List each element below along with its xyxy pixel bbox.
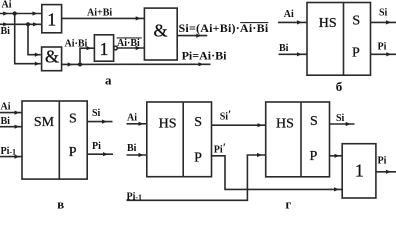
junction dot on Ai wire bbox=[13, 11, 17, 15]
wire P of HS2 to OR bbox=[330, 155, 343, 157]
svg-text:P: P bbox=[194, 151, 202, 166]
divider HS2 bbox=[300, 102, 302, 177]
svg-text:HS: HS bbox=[159, 117, 177, 132]
wire Pi output bbox=[87, 153, 113, 155]
svg-text:Bi: Bi bbox=[127, 143, 137, 154]
divider bbox=[343, 3, 345, 76]
svg-text:Pi=Ai·Bi: Pi=Ai·Bi bbox=[182, 48, 228, 62]
svg-text:Ai·Bi: Ai·Bi bbox=[117, 38, 140, 49]
svg-text:Si=(Ai+Bi)·Ai·Bi: Si=(Ai+Bi)·Ai·Bi bbox=[179, 21, 269, 35]
svg-text:а: а bbox=[105, 72, 112, 87]
svg-text:Ai: Ai bbox=[1, 102, 11, 113]
junction dot on Bi wire bbox=[26, 22, 30, 26]
svg-text:1: 1 bbox=[47, 9, 56, 29]
svg-text:Pi-1: Pi-1 bbox=[1, 146, 17, 157]
wire Ai input bbox=[0, 13, 41, 15]
svg-text:Si: Si bbox=[379, 7, 388, 18]
wire Pi-1 up into HS2 bbox=[127, 155, 266, 200]
svg-text:Bi: Bi bbox=[279, 43, 289, 54]
svg-text:1: 1 bbox=[100, 39, 109, 59]
svg-text:S: S bbox=[69, 112, 77, 127]
wire Si output bbox=[330, 123, 355, 125]
wire Bi input bbox=[0, 23, 41, 25]
svg-text:Ai: Ai bbox=[127, 113, 137, 124]
svg-text:P: P bbox=[69, 145, 77, 160]
svg-text:P: P bbox=[310, 149, 318, 164]
wire Ai branch down to AND gate bbox=[15, 14, 41, 64]
wire Si' to HS2 bbox=[212, 124, 266, 126]
wire OR output Ai+Bi bbox=[62, 17, 145, 19]
wire Pi-1 input bbox=[0, 156, 22, 158]
svg-text:S: S bbox=[352, 13, 360, 28]
svg-text:б: б bbox=[336, 79, 343, 94]
wire Bi branch down to AND gate bbox=[28, 24, 41, 54]
svg-text:Pi: Pi bbox=[92, 141, 101, 152]
divider HS1 bbox=[182, 102, 184, 177]
svg-text:&: & bbox=[153, 21, 167, 41]
svg-text:г: г bbox=[285, 197, 291, 211]
svg-text:Pi: Pi bbox=[378, 156, 387, 167]
svg-text:&: & bbox=[45, 47, 59, 67]
svg-text:S: S bbox=[194, 115, 202, 130]
svg-text:Ai: Ai bbox=[2, 0, 12, 10]
svg-text:в: в bbox=[57, 196, 64, 210]
svg-text:1: 1 bbox=[355, 160, 364, 180]
half-adder box HS2 bbox=[266, 102, 330, 177]
inversion bubble bbox=[114, 46, 118, 50]
svg-text:Si: Si bbox=[92, 108, 101, 119]
svg-text:HS: HS bbox=[319, 16, 337, 31]
half-adder box HS bbox=[307, 3, 371, 76]
wire Ai input bbox=[278, 21, 307, 23]
wire Bi input bbox=[0, 126, 22, 128]
svg-text:S: S bbox=[310, 114, 318, 129]
wire Ai input bbox=[0, 112, 22, 114]
half-adder box HS1 bbox=[147, 102, 212, 177]
svg-text:Si: Si bbox=[336, 113, 345, 124]
svg-text:HS: HS bbox=[276, 117, 294, 132]
svg-text:Pi: Pi bbox=[378, 42, 387, 53]
adder box SM bbox=[22, 101, 87, 179]
NOT gate D3 bbox=[94, 35, 113, 61]
wire Ai input bbox=[127, 123, 147, 125]
wire up to NOT gate bbox=[80, 48, 94, 64]
wire Si output bbox=[371, 21, 396, 23]
svg-text:Pi′: Pi′ bbox=[214, 140, 226, 156]
wire NOT output bbox=[117, 47, 144, 49]
divider bbox=[58, 101, 60, 179]
wire Si output bbox=[87, 121, 112, 123]
svg-text:Pi-1: Pi-1 bbox=[127, 191, 143, 202]
svg-text:Ai: Ai bbox=[284, 9, 294, 20]
junction dot on Pi line bbox=[78, 62, 82, 66]
wire Si output bbox=[178, 35, 208, 37]
svg-text:Ai+Bi: Ai+Bi bbox=[87, 8, 112, 19]
wire Pi' down and right to OR bbox=[212, 156, 343, 190]
wire Pi output bbox=[371, 53, 396, 55]
svg-text:P: P bbox=[352, 45, 360, 60]
svg-text:SM: SM bbox=[34, 115, 55, 130]
OR gate D5 bbox=[342, 144, 376, 198]
AND gate D2 bbox=[42, 47, 62, 71]
AND gate D4 (output) bbox=[144, 8, 177, 60]
wire AND output / Pi line bbox=[62, 63, 211, 65]
wire Bi input bbox=[279, 53, 308, 55]
svg-text:Bi: Bi bbox=[1, 26, 11, 37]
wire Pi output bbox=[376, 171, 396, 173]
wire Bi input bbox=[127, 154, 147, 156]
OR gate D1 bbox=[42, 5, 62, 33]
svg-text:Si′: Si′ bbox=[220, 107, 232, 123]
svg-text:Bi: Bi bbox=[1, 116, 11, 127]
